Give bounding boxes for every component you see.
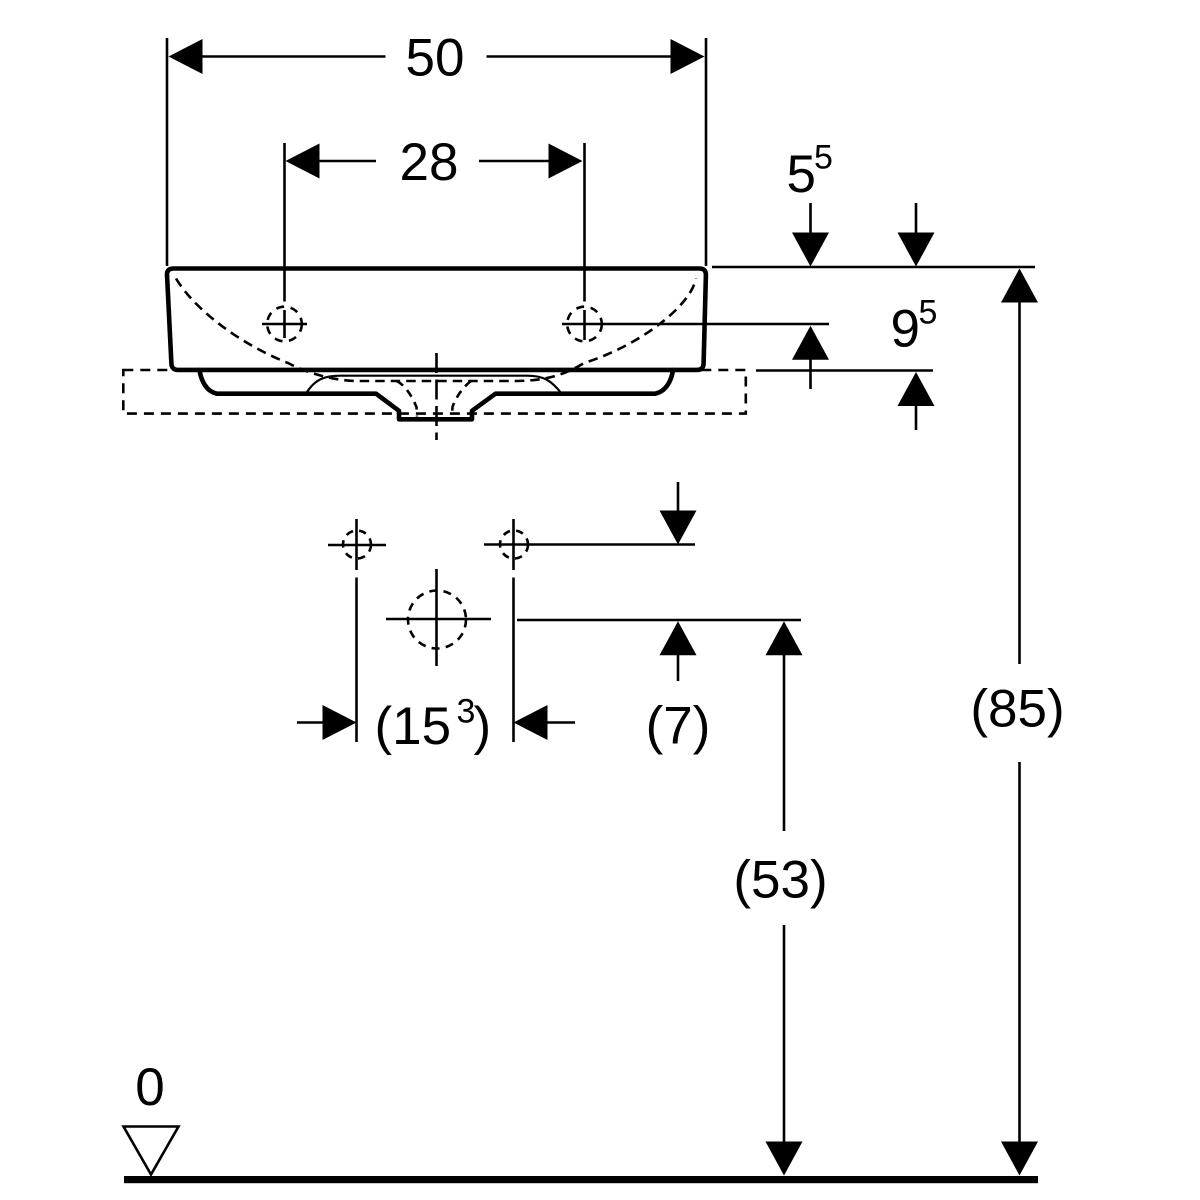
svg-text:5: 5 <box>814 139 833 177</box>
svg-text:9: 9 <box>891 300 920 359</box>
svg-text:5: 5 <box>787 145 816 204</box>
svg-text:(53): (53) <box>733 851 827 910</box>
svg-text:28: 28 <box>400 133 459 192</box>
svg-text:3: 3 <box>457 693 476 731</box>
svg-text:(85): (85) <box>970 680 1064 739</box>
svg-text:0: 0 <box>135 1058 164 1117</box>
svg-text:(15: (15 <box>375 697 452 756</box>
svg-text:(7): (7) <box>646 697 711 756</box>
svg-text:): ) <box>474 697 492 756</box>
svg-text:50: 50 <box>406 29 465 88</box>
svg-text:5: 5 <box>919 294 938 332</box>
